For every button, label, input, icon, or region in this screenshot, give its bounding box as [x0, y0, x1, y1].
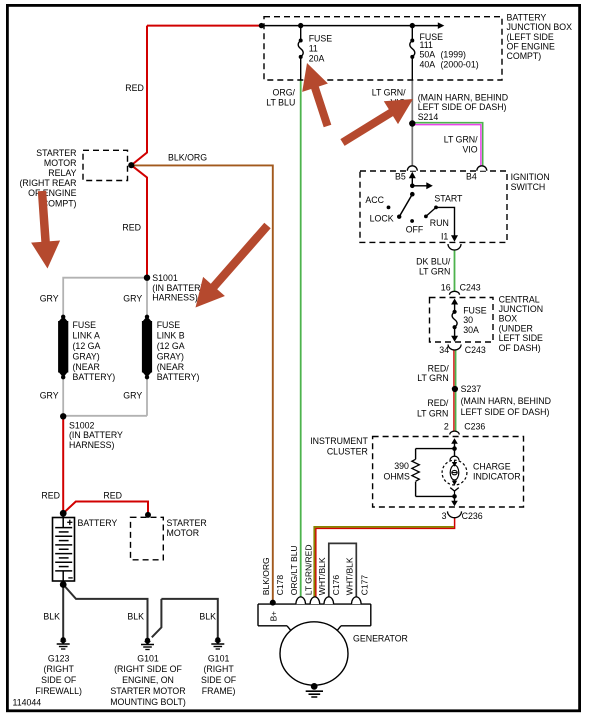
svg-text:JUNCTION BOX: JUNCTION BOX [507, 22, 573, 32]
svg-text:C236: C236 [464, 422, 485, 432]
svg-text:LT GRN/: LT GRN/ [444, 135, 478, 145]
svg-text:(RIGHT: (RIGHT [203, 664, 234, 674]
svg-text:FUSE: FUSE [73, 320, 97, 330]
svg-text:COMPT): COMPT) [507, 51, 542, 61]
svg-text:INSTRUMENT: INSTRUMENT [310, 436, 368, 446]
svg-text:BLK: BLK [199, 612, 216, 622]
svg-text:LT GRN: LT GRN [417, 373, 448, 383]
svg-text:20A: 20A [309, 53, 325, 63]
svg-text:(IN BATTERY: (IN BATTERY [152, 283, 206, 293]
svg-text:FUSE: FUSE [309, 33, 333, 43]
svg-text:(MAIN HARN, BEHIND: (MAIN HARN, BEHIND [418, 92, 508, 102]
svg-text:111: 111 [420, 40, 433, 50]
svg-text:C243: C243 [460, 282, 481, 292]
svg-text:RUN: RUN [430, 218, 449, 228]
svg-text:114044: 114044 [13, 698, 42, 708]
svg-text:B+: B+ [270, 611, 279, 621]
svg-text:LINK A: LINK A [73, 331, 101, 341]
svg-text:RED/: RED/ [427, 398, 449, 408]
svg-text:390: 390 [394, 461, 409, 471]
svg-text:BOX: BOX [499, 314, 518, 324]
svg-text:GENERATOR: GENERATOR [353, 633, 408, 643]
svg-text:S237: S237 [461, 384, 482, 394]
svg-text:LEFT SIDE OF DASH): LEFT SIDE OF DASH) [461, 407, 550, 417]
svg-text:GRY: GRY [40, 390, 59, 400]
svg-text:OF ENGINE: OF ENGINE [28, 188, 77, 198]
svg-text:ACC: ACC [365, 195, 384, 205]
svg-text:LOCK: LOCK [370, 213, 394, 223]
svg-text:DK BLU/: DK BLU/ [416, 257, 451, 267]
svg-text:16: 16 [441, 282, 451, 292]
svg-text:ORG/LT BLU: ORG/LT BLU [289, 545, 299, 595]
svg-text:BATTERY: BATTERY [507, 12, 547, 22]
svg-text:C236: C236 [462, 511, 483, 521]
svg-text:30A: 30A [463, 325, 479, 335]
svg-text:(RIGHT REAR: (RIGHT REAR [19, 178, 76, 188]
svg-text:G123: G123 [48, 653, 70, 663]
svg-text:34: 34 [439, 345, 449, 355]
svg-text:SIDE OF: SIDE OF [41, 675, 77, 685]
svg-text:OFF: OFF [406, 224, 424, 234]
svg-text:G101: G101 [137, 653, 159, 663]
svg-text:GRY: GRY [40, 293, 59, 303]
svg-text:STARTER: STARTER [36, 148, 76, 158]
svg-text:GRY: GRY [123, 293, 142, 303]
svg-text:BLK: BLK [43, 612, 60, 622]
svg-text:RELAY: RELAY [48, 168, 76, 178]
svg-text:CENTRAL: CENTRAL [499, 294, 540, 304]
svg-text:BATTERY): BATTERY) [73, 372, 116, 382]
svg-text:STARTER: STARTER [167, 518, 207, 528]
svg-text:S1001: S1001 [152, 273, 178, 283]
svg-text:LT GRN/: LT GRN/ [372, 87, 406, 97]
svg-text:FRAME): FRAME) [202, 686, 236, 696]
svg-text:BLK/ORG: BLK/ORG [168, 152, 207, 162]
svg-text:LEFT SIDE: LEFT SIDE [499, 333, 543, 343]
svg-text:BLK: BLK [127, 612, 144, 622]
svg-text:2: 2 [444, 422, 449, 432]
svg-text:40A: 40A [420, 59, 436, 69]
svg-text:30: 30 [463, 315, 473, 325]
svg-text:C243: C243 [465, 345, 486, 355]
svg-text:LINK B: LINK B [157, 331, 185, 341]
svg-text:(NEAR: (NEAR [157, 362, 184, 372]
svg-text:CLUSTER: CLUSTER [327, 447, 368, 457]
svg-text:RED: RED [122, 222, 141, 232]
svg-text:MOTOR: MOTOR [167, 528, 200, 538]
svg-text:GRAY): GRAY) [157, 351, 184, 361]
svg-text:FUSE: FUSE [157, 320, 181, 330]
svg-text:I1: I1 [441, 231, 448, 241]
svg-text:WHT/BLK: WHT/BLK [345, 557, 355, 595]
svg-text:(NEAR: (NEAR [73, 362, 100, 372]
svg-text:OF DASH): OF DASH) [499, 343, 541, 353]
svg-text:JUNCTION: JUNCTION [499, 304, 543, 314]
svg-text:ENGINE, ON: ENGINE, ON [122, 675, 174, 685]
svg-text:OHMS: OHMS [383, 471, 410, 481]
svg-text:LT GRN/RED: LT GRN/RED [304, 544, 314, 595]
svg-text:VIO: VIO [462, 144, 477, 154]
svg-text:GRAY): GRAY) [73, 351, 100, 361]
svg-text:BATTERY: BATTERY [78, 518, 118, 528]
svg-text:(RIGHT SIDE OF: (RIGHT SIDE OF [114, 664, 182, 674]
svg-text:HARNESS): HARNESS) [152, 293, 198, 303]
svg-text:FUSE: FUSE [463, 305, 487, 315]
svg-text:S1002: S1002 [69, 420, 95, 430]
svg-text:LEFT SIDE OF DASH): LEFT SIDE OF DASH) [418, 102, 507, 112]
svg-text:IGNITION: IGNITION [511, 172, 550, 182]
svg-text:OF ENGINE: OF ENGINE [507, 42, 556, 52]
svg-text:RED: RED [103, 491, 122, 501]
svg-text:S214: S214 [418, 112, 439, 122]
svg-text:LT BLU: LT BLU [266, 97, 295, 107]
svg-text:MOUNTING BOLT): MOUNTING BOLT) [110, 697, 186, 707]
svg-text:(12 GA: (12 GA [157, 341, 185, 351]
svg-text:B5: B5 [395, 172, 406, 182]
svg-text:G101: G101 [208, 653, 230, 663]
svg-text:LT GRN: LT GRN [419, 267, 450, 277]
svg-text:C176: C176 [331, 575, 341, 596]
svg-text:SIDE OF: SIDE OF [201, 675, 237, 685]
svg-text:INDICATOR: INDICATOR [473, 472, 521, 482]
svg-text:HARNESS): HARNESS) [69, 440, 115, 450]
svg-text:SWITCH: SWITCH [511, 182, 546, 192]
svg-text:50A: 50A [420, 50, 436, 60]
svg-text:11: 11 [309, 43, 318, 53]
svg-text:FIREWALL): FIREWALL) [35, 686, 82, 696]
svg-text:GRY: GRY [123, 390, 142, 400]
svg-text:RED: RED [125, 83, 144, 93]
svg-text:LT GRN: LT GRN [417, 408, 448, 418]
svg-text:3: 3 [442, 511, 447, 521]
svg-text:STARTER MOTOR: STARTER MOTOR [110, 686, 185, 696]
svg-text:(IN BATTERY: (IN BATTERY [69, 430, 123, 440]
svg-text:(RIGHT: (RIGHT [44, 664, 75, 674]
svg-text:(MAIN HARN, BEHIND: (MAIN HARN, BEHIND [461, 396, 551, 406]
svg-text:(12 GA: (12 GA [73, 341, 101, 351]
svg-text:(LEFT SIDE: (LEFT SIDE [507, 32, 554, 42]
svg-text:WHT/BLK: WHT/BLK [317, 557, 327, 595]
svg-text:RED: RED [41, 491, 60, 501]
svg-text:CHARGE: CHARGE [473, 461, 511, 471]
svg-text:MOTOR: MOTOR [44, 158, 77, 168]
svg-text:RED/: RED/ [428, 363, 450, 373]
svg-text:C178: C178 [275, 575, 285, 596]
svg-text:C177: C177 [359, 575, 369, 596]
svg-text:(1999): (1999) [441, 50, 466, 60]
svg-text:(UNDER: (UNDER [499, 323, 533, 333]
svg-text:START: START [434, 194, 463, 204]
svg-text:B4: B4 [466, 172, 477, 182]
svg-text:BLK/ORG: BLK/ORG [261, 557, 271, 595]
svg-text:BATTERY): BATTERY) [157, 372, 200, 382]
svg-text:ORG/: ORG/ [273, 87, 296, 97]
svg-text:(2000-01): (2000-01) [441, 59, 479, 69]
